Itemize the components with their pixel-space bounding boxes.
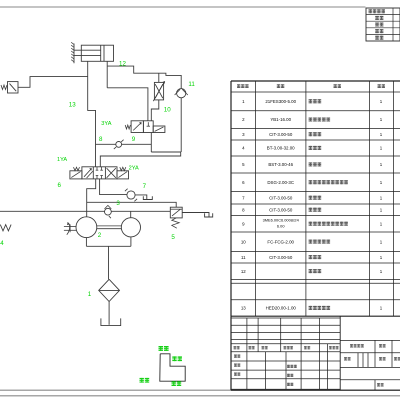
svg-text:6.00: 6.00: [277, 224, 285, 229]
cylinder 12 piston rod: [74, 49, 101, 51]
throttle valve 10 arrow: [153, 82, 164, 102]
sheet bottom border line 2: [0, 395, 400, 397]
check valve 3: [105, 208, 112, 215]
svg-text:CIT-3.00-50: CIT-3.00-50: [269, 195, 293, 200]
svg-text:3YA: 3YA: [101, 121, 111, 127]
valve 6 center square blocked ports: [96, 167, 98, 170]
title block grid: [231, 317, 340, 319]
valve 6 right square crossed arrows: [107, 168, 116, 178]
throttle valve 10: [154, 82, 163, 100]
svg-text:3: 3: [116, 200, 120, 207]
valve 9 solenoid: [153, 126, 165, 133]
wire: right port branch to valve 9: [107, 88, 148, 121]
wire: valve 9 bottom port: [150, 133, 152, 153]
svg-text:5: 5: [171, 234, 175, 241]
svg-text:11: 11: [241, 255, 246, 260]
svg-text:2: 2: [98, 232, 102, 239]
label gongjin: [172, 356, 176, 361]
wire: pump bottoms to suction: [85, 238, 87, 247]
svg-text:10: 10: [164, 106, 171, 113]
pressure relay 13 body: [8, 82, 19, 93]
wire + drain tank after valve 5: [182, 213, 209, 217]
svg-text:CIT-3.00-50: CIT-3.00-50: [269, 207, 293, 212]
wire: valve 6 port B up to junction: [100, 152, 180, 167]
wire: valve 6 port T to check 7: [100, 179, 127, 195]
label kuaijin: [159, 346, 164, 351]
svg-text:4: 4: [0, 240, 4, 247]
valve 6 left spring: [74, 167, 80, 170]
svg-text:6: 6: [58, 182, 62, 189]
label kuaitui: [172, 381, 176, 386]
check valve 8: [116, 142, 122, 148]
valve 6 left solenoid: [70, 171, 82, 179]
pilot line to valve 5: [87, 202, 177, 207]
pump drive rotation arrow: [67, 224, 70, 234]
svg-text:3ME6.00C6.000&I24: 3ME6.00C6.000&I24: [263, 217, 300, 222]
pump coupling shaft: [97, 225, 122, 227]
svg-text:DSG-2.00-3C: DSG-2.00-3C: [267, 180, 294, 185]
wire: throttle bottom to valve 9: [151, 100, 159, 121]
valve 6 body: [82, 167, 117, 179]
pump 2 left circle: [76, 217, 97, 238]
sequence valve 5 spring: [172, 218, 179, 228]
cylinder 12 piston: [100, 45, 102, 61]
pump drive shaft: [64, 225, 76, 227]
check valve 7: [127, 191, 135, 199]
svg-text:FC-FCG-2.00: FC-FCG-2.00: [267, 239, 294, 244]
parts list table grid: [231, 80, 400, 82]
wire: cylinder left port down: [88, 61, 96, 167]
cylinder 12 wall hatch: [73, 44, 75, 64]
sheet top border line: [0, 6, 366, 8]
svg-text:HED20.00-1.00: HED20.00-1.00: [266, 306, 297, 311]
svg-text:CIT-3.00-50: CIT-3.00-50: [269, 255, 293, 260]
wire: filter to tank: [108, 302, 110, 325]
top-right revision mini table: [366, 8, 400, 41]
svg-text:YB1-16.00: YB1-16.00: [270, 117, 291, 122]
relief valve 4 spring (cut at edge): [0, 225, 11, 231]
label tingzhi: [140, 378, 144, 383]
wire: pressure relay to cylinder left line: [18, 77, 88, 88]
svg-text:2YA: 2YA: [129, 166, 139, 172]
sequence valve 5 body: [170, 207, 182, 218]
wire: check valve 11 down: [180, 98, 182, 152]
wire: main line down to right pump: [130, 211, 132, 217]
svg-text:CIT-3.00-50: CIT-3.00-50: [269, 132, 293, 137]
sheet bottom border line 1: [0, 389, 400, 391]
wire + drain tank after check 7: [135, 195, 147, 200]
svg-text:1: 1: [88, 291, 92, 298]
valve 6 right spring: [120, 167, 126, 170]
svg-text:13: 13: [241, 306, 246, 311]
valve 9 left square arrows: [133, 123, 141, 131]
svg-text:BT-3.00-32.00: BT-3.00-32.00: [267, 146, 295, 151]
cycle L-diagram: [160, 354, 185, 381]
svg-text:BST-3.00-46: BST-3.00-46: [268, 162, 293, 167]
svg-text:12: 12: [119, 60, 126, 67]
valve 6 left square arrows: [84, 169, 91, 177]
main pressure line: [0, 210, 170, 212]
valve 9 body: [131, 121, 143, 133]
tank: [101, 318, 121, 325]
cylinder 12 body: [81, 45, 113, 61]
filter 1: [99, 279, 120, 301]
wire: cylinder right port down: [106, 61, 108, 88]
svg-text:10: 10: [241, 239, 246, 244]
svg-text:7: 7: [143, 183, 147, 190]
svg-text:9: 9: [132, 136, 136, 143]
svg-text:8: 8: [99, 136, 103, 143]
svg-text:11: 11: [188, 81, 195, 88]
svg-text:21FES300-5.00: 21FES300-5.00: [265, 99, 296, 104]
valve 9 right square blocked port: [147, 122, 149, 126]
check valve 11: [177, 89, 186, 98]
valve 6 right solenoid: [117, 171, 129, 179]
wire: branch to throttle 10 top: [158, 73, 160, 82]
svg-text:12: 12: [241, 269, 246, 274]
pump 2 right circle: [121, 218, 140, 237]
valve 9 spring: [125, 125, 130, 129]
wire: valve 6 port P down to pump: [87, 179, 96, 217]
svg-text:1YA: 1YA: [57, 157, 67, 163]
svg-text:13: 13: [69, 101, 76, 108]
pressure relay 13 spring W: [1, 85, 7, 90]
wire 12: right port to throttle/check branch: [107, 66, 181, 89]
wire: check 8 line: [96, 143, 152, 145]
